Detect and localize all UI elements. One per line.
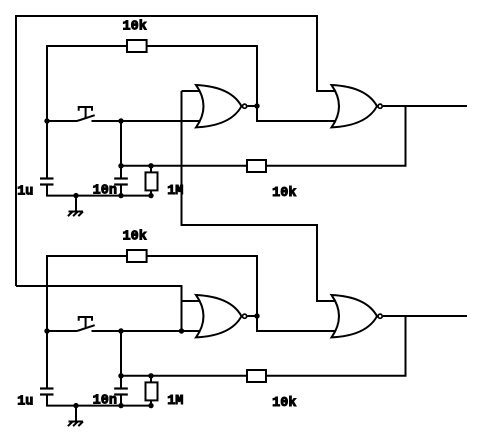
svg-text:10k: 10k xyxy=(272,396,296,411)
wire: 1M top lead (circuit 2) xyxy=(150,376,152,383)
switch S1 actuator cap xyxy=(79,107,92,111)
wire: left rail to gate A2 input (circuit 2) xyxy=(16,286,182,331)
wire: feedback 10k to output (circuit 2) xyxy=(266,316,406,376)
svg-text:10n: 10n xyxy=(93,393,117,408)
svg-text:1M: 1M xyxy=(167,394,183,409)
wire: switch to gate input (circuit 1) xyxy=(92,120,204,122)
junction: switch left node (circuit 1) xyxy=(44,118,49,123)
capacitor 10n (circuit 2) xyxy=(114,387,128,389)
wire: 10n bottom lead (circuit 1) xyxy=(120,185,122,196)
junction: gate A2 inputs tied xyxy=(179,328,184,333)
capacitor 10n (circuit 1) xyxy=(114,177,128,179)
junction: 1M bottom (circuit 2) xyxy=(148,403,153,408)
wire: output line (circuit 1) xyxy=(383,105,467,107)
wire: RC node to feedback 10k (circuit 1) xyxy=(151,165,247,167)
wire: RC node to 1M (circuit 1) xyxy=(121,165,151,167)
junction: RC node (circuit 1) xyxy=(118,163,123,168)
ground (circuit 1) xyxy=(75,196,77,212)
NOR gate B2 (right) xyxy=(332,295,378,337)
svg-text:10k: 10k xyxy=(272,186,296,201)
junction: RC node (circuit 2) xyxy=(118,373,123,378)
resistor 10k (top, circuit 2) xyxy=(127,250,147,262)
switch S1 actuator stem xyxy=(85,107,87,118)
wire: 1M bottom lead (circuit 1) xyxy=(150,190,152,195)
svg-text:1u: 1u xyxy=(17,394,33,409)
resistor 10k (feedback, circuit 1) xyxy=(247,160,266,172)
wire: cross-couple top rail (out2 to gate B1 top input) xyxy=(16,16,336,286)
resistor 1M (circuit 1) xyxy=(146,172,158,190)
resistor 10k (top, circuit 1) xyxy=(127,40,147,52)
wire: gate A2 output stub xyxy=(247,315,257,317)
NOR gate A1 (left) xyxy=(196,85,242,127)
wire: gate A1 output stub xyxy=(247,105,257,107)
wire: node to switch (circuit 1) xyxy=(47,120,77,122)
junction: gate A2 output node xyxy=(254,313,259,318)
svg-text:10k: 10k xyxy=(123,229,147,244)
svg-text:1M: 1M xyxy=(167,184,183,199)
junction: 1M top (circuit 1) xyxy=(148,163,153,168)
wire: gate A1 top input stub xyxy=(182,90,204,92)
resistor 1M (circuit 2) xyxy=(146,382,158,400)
switch S2 actuator cap xyxy=(79,317,92,321)
wire: 1M top lead (circuit 1) xyxy=(150,166,152,173)
junction: 10n bottom (circuit 1) xyxy=(118,193,123,198)
wire: gate A2 top input stub xyxy=(182,300,204,302)
wire: switch to gate input (circuit 2) xyxy=(92,330,204,332)
junction: switch left node (circuit 2) xyxy=(44,328,49,333)
resistor 10k (feedback, circuit 2) xyxy=(247,370,266,382)
wire: 10n bottom lead (circuit 2) xyxy=(120,395,122,406)
switch S2 actuator stem xyxy=(85,317,87,328)
wire: top 10k feed, left branch (circuit 1) xyxy=(47,46,127,121)
NOR gate B1 (right) xyxy=(332,85,378,127)
junction: ground rail (circuit 2) xyxy=(73,403,78,408)
wire: RC node to feedback 10k (circuit 2) xyxy=(151,375,247,377)
svg-text:10n: 10n xyxy=(93,183,117,198)
svg-text:1u: 1u xyxy=(17,184,33,199)
wire: 1u bottom to ground rail (circuit 2) xyxy=(47,395,151,406)
NOR gate B1 output bubble xyxy=(378,104,382,108)
wire: 10n top lead (circuit 1) xyxy=(120,121,122,179)
wire: 1u cap top lead (circuit 2) xyxy=(46,331,48,389)
wire: RC node to 1M (circuit 2) xyxy=(121,375,151,377)
wire: 10n top lead (circuit 2) xyxy=(120,331,122,389)
wire: output line (circuit 2) xyxy=(383,315,467,317)
junction: 1M top (circuit 2) xyxy=(148,373,153,378)
switch S2 blade xyxy=(77,325,95,331)
junction: switch right node (circuit 1) xyxy=(118,118,123,123)
wire: 1u cap top lead (circuit 1) xyxy=(46,121,48,179)
NOR gate A1 output bubble xyxy=(243,104,247,108)
junction: ground rail (circuit 1) xyxy=(73,193,78,198)
junction: 10n bottom (circuit 2) xyxy=(118,403,123,408)
wire: 10k to gate output node (circuit 1) xyxy=(147,46,336,121)
NOR gate A2 (left) xyxy=(196,295,242,337)
svg-text:10k: 10k xyxy=(123,19,147,34)
wire: cross-couple gate A1 input down to gate B2 top input xyxy=(182,91,337,301)
wire: top 10k feed, left branch (circuit 2) xyxy=(47,256,127,331)
NOR gate A2 output bubble xyxy=(243,314,247,318)
wire: 1M bottom lead (circuit 2) xyxy=(150,400,152,405)
wire: node to switch (circuit 2) xyxy=(47,330,77,332)
switch S1 blade xyxy=(77,115,95,121)
capacitor 1u (circuit 1) xyxy=(40,177,54,179)
junction: switch right node (circuit 2) xyxy=(118,328,123,333)
wire: 10k to gate output node (circuit 2) xyxy=(147,256,336,331)
capacitor 1u (circuit 2) xyxy=(40,387,54,389)
junction: 1M bottom (circuit 1) xyxy=(148,193,153,198)
wire: feedback 10k to output (circuit 1) xyxy=(266,106,406,166)
wire: 1u bottom to ground rail (circuit 1) xyxy=(47,185,151,196)
ground (circuit 2) xyxy=(75,406,77,422)
junction: gate A1 output node xyxy=(254,103,259,108)
NOR gate B2 output bubble xyxy=(378,314,382,318)
